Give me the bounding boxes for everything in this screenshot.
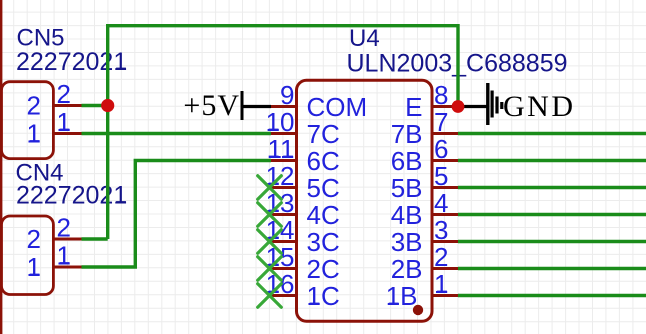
svg-text:2: 2 xyxy=(27,91,41,121)
svg-text:GND: GND xyxy=(503,90,576,123)
svg-text:5: 5 xyxy=(434,161,448,191)
svg-text:U4: U4 xyxy=(349,25,380,52)
svg-text:6: 6 xyxy=(434,134,448,164)
svg-text:4: 4 xyxy=(434,188,448,218)
svg-text:6C: 6C xyxy=(307,146,340,176)
svg-text:2B: 2B xyxy=(391,254,423,284)
svg-text:1: 1 xyxy=(57,241,71,271)
svg-text:1B: 1B xyxy=(386,281,418,311)
svg-text:5C: 5C xyxy=(307,173,340,203)
svg-text:1: 1 xyxy=(57,107,71,137)
svg-text:2C: 2C xyxy=(307,254,340,284)
svg-text:7C: 7C xyxy=(307,119,340,149)
svg-text:COM: COM xyxy=(307,92,368,122)
svg-text:3: 3 xyxy=(434,215,448,245)
svg-text:2: 2 xyxy=(434,242,448,272)
svg-text:3B: 3B xyxy=(391,227,423,257)
svg-text:2: 2 xyxy=(57,79,71,109)
svg-text:11: 11 xyxy=(268,134,295,164)
svg-text:9: 9 xyxy=(280,80,294,110)
svg-text:1: 1 xyxy=(27,119,41,149)
svg-text:2: 2 xyxy=(27,224,41,254)
svg-text:4C: 4C xyxy=(307,200,340,230)
svg-text:7: 7 xyxy=(434,107,448,137)
svg-text:22272021: 22272021 xyxy=(16,182,127,210)
svg-text:1: 1 xyxy=(27,252,41,282)
svg-text:7B: 7B xyxy=(391,119,423,149)
svg-text:4B: 4B xyxy=(391,200,423,230)
svg-text:22272021: 22272021 xyxy=(16,48,127,76)
svg-text:E: E xyxy=(405,92,422,122)
svg-text:6B: 6B xyxy=(391,146,423,176)
svg-text:+5V: +5V xyxy=(183,89,240,122)
svg-text:3C: 3C xyxy=(307,227,340,257)
svg-text:5B: 5B xyxy=(391,173,423,203)
svg-text:1C: 1C xyxy=(307,281,340,311)
svg-text:8: 8 xyxy=(434,80,448,110)
svg-text:2: 2 xyxy=(57,213,71,243)
svg-text:1: 1 xyxy=(434,269,448,299)
